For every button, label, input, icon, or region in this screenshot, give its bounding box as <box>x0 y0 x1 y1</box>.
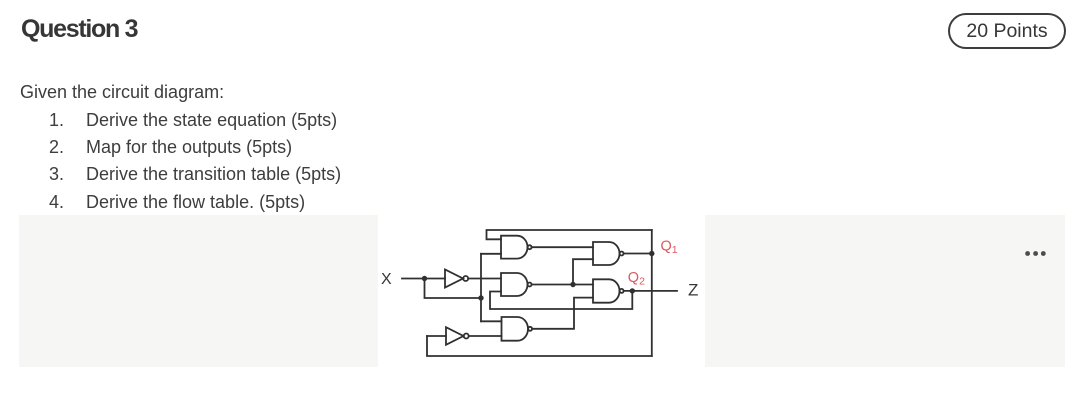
inverter N1 <box>445 270 463 288</box>
wire U1 output <box>532 246 593 248</box>
wire Q1 feedback vertical <box>651 230 653 356</box>
nand U2 <box>501 273 528 296</box>
wire U2 output <box>532 284 593 286</box>
wire U4 output Q1 <box>624 253 652 255</box>
node U2 output junction <box>570 282 575 287</box>
wire U1 top input feedback from Q1 <box>487 230 652 239</box>
nand U5 <box>593 279 620 302</box>
badge 20 Points <box>948 13 1066 49</box>
wire U4 lower input <box>573 259 593 284</box>
node Q2 <box>630 288 635 293</box>
wire X lower branch <box>425 279 482 299</box>
svg-text:Z: Z <box>688 281 698 300</box>
prompt text <box>20 82 224 103</box>
circuit schematic <box>378 215 705 367</box>
svg-text:Q1: Q1 <box>661 239 678 256</box>
wire N2 output <box>469 335 502 337</box>
wire U2 lower input feedback from Q2 <box>490 291 632 309</box>
node Q1 <box>649 251 654 256</box>
wire U3 output to U5 lower input <box>532 298 593 329</box>
kebab menu dots <box>1025 243 1049 248</box>
wire U5 output Z <box>624 290 677 292</box>
wire U1 lower input <box>481 253 501 255</box>
nand U3 <box>502 317 529 341</box>
nand U1 <box>501 236 528 259</box>
list <box>49 107 341 217</box>
node X junction <box>422 276 427 281</box>
wire Q1 bottom feedback <box>427 336 652 356</box>
title Question 3 <box>21 15 137 44</box>
wire N2 input <box>427 335 446 337</box>
inverter N2 <box>446 327 464 345</box>
wire N1 output <box>468 278 501 280</box>
nand U4 <box>593 242 620 265</box>
svg-text:X: X <box>381 271 392 288</box>
wire X input <box>402 278 445 280</box>
svg-text:Q2: Q2 <box>628 270 645 287</box>
gray attachment strip: left panel <box>19 215 378 367</box>
wire U3 upper input <box>481 320 502 322</box>
gray attachment strip: right panel <box>705 215 1065 367</box>
wire X vertical bus <box>480 254 482 321</box>
node X-bus junction <box>478 295 483 300</box>
